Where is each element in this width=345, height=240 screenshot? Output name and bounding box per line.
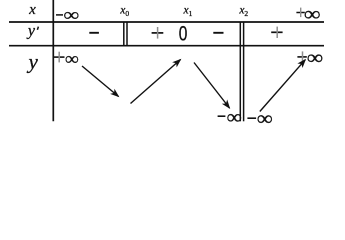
- label: sign minus (zone 1): [89, 32, 99, 34]
- node x2: full-height double bar: [240, 22, 243, 121]
- svg-text:0: 0: [125, 9, 129, 18]
- node x0: double bar in y' row: [124, 22, 127, 46]
- wire: horizontal rule under y' row: [9, 45, 324, 47]
- wire: label column separator vertical line: [52, 0, 54, 121]
- svg-text:0: 0: [179, 21, 188, 45]
- label: plus infinity (x row): [296, 3, 320, 25]
- arrow: y increasing to maximum at x1: [131, 60, 181, 104]
- label: sign plus (zone 2): [152, 27, 164, 39]
- label: zero of y' at x1: [179, 21, 188, 45]
- label: plus infinity (y row, left top): [54, 49, 79, 69]
- svg-text:x: x: [28, 2, 36, 18]
- arrow: y decreasing from +infinity to minimum at x0: [82, 66, 119, 97]
- label: plus infinity (y row, right top): [297, 46, 323, 68]
- svg-text:2: 2: [244, 9, 248, 18]
- svg-text:y: y: [26, 23, 36, 40]
- label: minus infinity (x row): [56, 6, 79, 25]
- label: minus infinity (y row, right of x2 bar): [247, 107, 272, 130]
- svg-text:∞: ∞: [307, 46, 323, 68]
- label: sign minus (zone 3): [213, 32, 223, 34]
- svg-text:∞: ∞: [227, 107, 242, 128]
- svg-text:y: y: [27, 49, 39, 73]
- arrow: y decreasing to minus infinity at x2: [194, 63, 230, 109]
- svg-text:∞: ∞: [64, 6, 80, 25]
- svg-text:∞: ∞: [257, 107, 273, 130]
- label: minus infinity (y row, left of x2 bar): [218, 107, 242, 128]
- svg-text:∞: ∞: [304, 3, 321, 25]
- svg-text:∞: ∞: [65, 49, 79, 69]
- arrow: y increasing from minus infinity to plus infinity: [260, 60, 306, 112]
- svg-text:1: 1: [189, 9, 193, 18]
- label: sign plus (zone 4): [271, 27, 282, 38]
- wire: horizontal rule under x row: [9, 21, 324, 23]
